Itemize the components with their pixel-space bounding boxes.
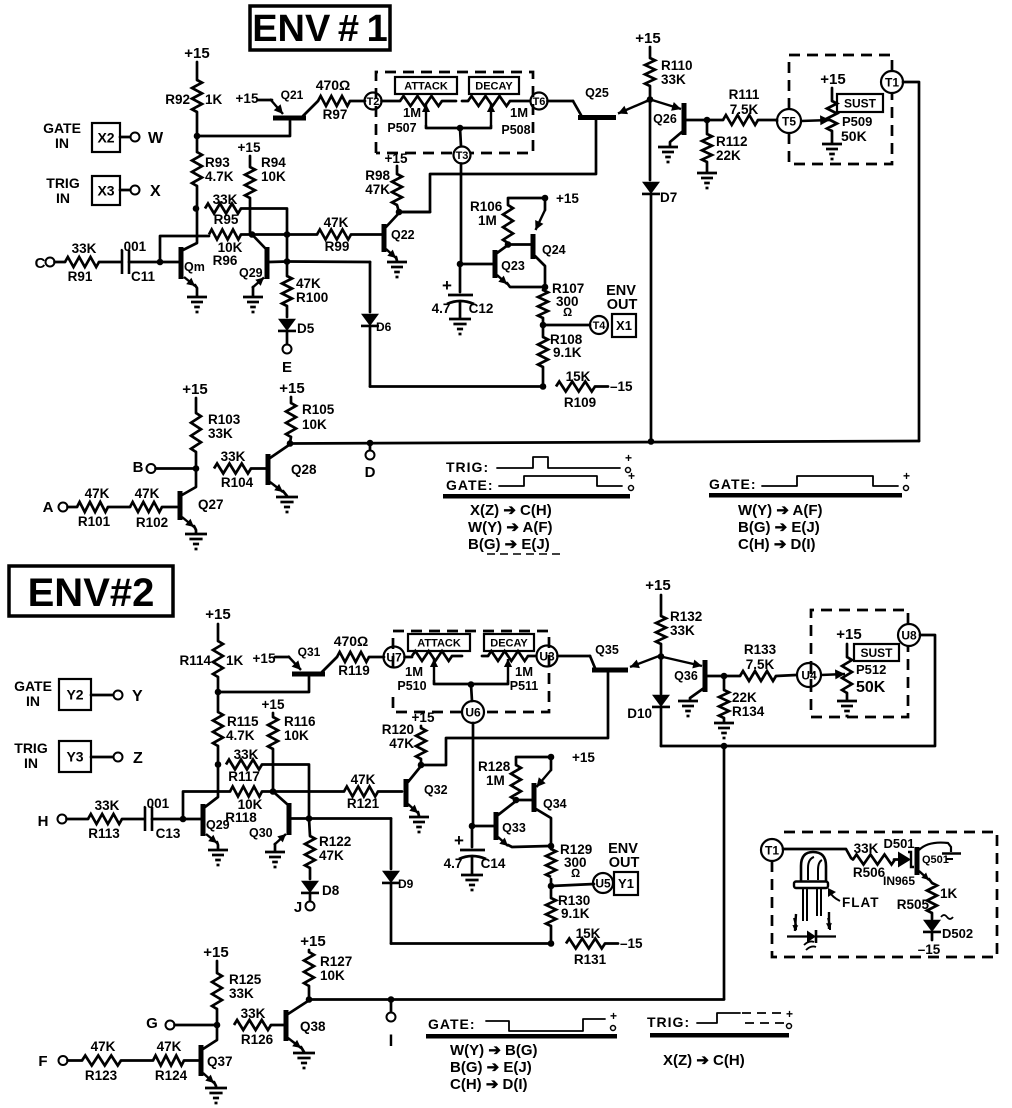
svg-text:10K: 10K <box>302 417 327 432</box>
svg-text:.001: .001 <box>120 239 147 254</box>
svg-text:W(Y) ➔ B(G): W(Y) ➔ B(G) <box>450 1042 538 1059</box>
capacitor C11 <box>120 239 156 284</box>
resistor R104 <box>214 449 266 490</box>
svg-text:1M: 1M <box>515 664 533 679</box>
svg-text:TRIG: TRIG <box>14 740 48 756</box>
junction <box>542 284 549 291</box>
wire <box>550 879 553 886</box>
svg-text:33K: 33K <box>234 747 259 762</box>
svg-text:U3: U3 <box>539 649 555 663</box>
svg-text:+15: +15 <box>236 91 259 106</box>
label DECAY <box>469 77 519 94</box>
resistor R124 <box>121 1039 198 1083</box>
node U5 <box>593 873 613 893</box>
power +15 <box>836 626 861 643</box>
svg-text:T2: T2 <box>367 96 380 108</box>
svg-text:+: + <box>454 831 464 850</box>
svg-text:R115: R115 <box>227 714 259 729</box>
separator bar <box>443 494 630 499</box>
junction <box>468 681 475 688</box>
svg-text:Y1: Y1 <box>618 876 634 891</box>
wire <box>471 685 472 702</box>
text C(H)->D(I) <box>738 536 816 553</box>
svg-text:Q35: Q35 <box>595 643 619 657</box>
resistor R91 <box>55 241 122 284</box>
connector Y3 (TRIG IN) <box>14 740 91 772</box>
svg-text:33K: 33K <box>95 798 120 813</box>
svg-text:4.7K: 4.7K <box>205 169 234 184</box>
svg-text:1M: 1M <box>405 664 423 679</box>
wire <box>262 765 309 819</box>
svg-text:TRIG: TRIG <box>46 175 80 191</box>
svg-text:R128: R128 <box>478 759 511 774</box>
svg-text:1K: 1K <box>226 653 244 668</box>
svg-text:47K: 47K <box>85 486 110 501</box>
svg-text:Q23: Q23 <box>501 259 525 273</box>
wire <box>382 100 401 103</box>
resistor R111 <box>707 87 777 125</box>
wire <box>548 100 574 103</box>
node T1 <box>881 71 903 93</box>
svg-text:W: W <box>148 130 164 147</box>
transistor Q25 <box>573 86 647 118</box>
svg-text:C(H) ➔ D(I): C(H) ➔ D(I) <box>450 1076 528 1093</box>
wire <box>783 849 853 860</box>
wire <box>350 100 365 103</box>
wire Q35 base <box>422 673 608 766</box>
node E <box>282 345 292 377</box>
svg-text:J: J <box>294 899 302 916</box>
label GATE waveform <box>709 476 757 492</box>
wire <box>723 746 726 999</box>
node A <box>43 499 68 516</box>
svg-text:GATE:: GATE: <box>428 1016 476 1032</box>
resistor R121 <box>273 772 402 811</box>
ground <box>187 297 207 312</box>
svg-text:50K: 50K <box>841 128 867 144</box>
diode D8 <box>301 868 340 901</box>
power +15 <box>253 651 276 666</box>
svg-text:DECAY: DECAY <box>490 637 528 649</box>
junction <box>505 195 549 248</box>
resistor R109 <box>556 369 633 410</box>
node B <box>133 459 156 476</box>
svg-text:R93: R93 <box>205 155 230 170</box>
resistor R96 <box>209 230 243 269</box>
svg-text:T4: T4 <box>593 320 607 332</box>
resistor R114 <box>179 641 243 677</box>
svg-text:T6: T6 <box>533 96 546 108</box>
diode D502 <box>923 913 973 941</box>
text B(G)->E(J) <box>468 536 550 553</box>
gate waveform 2 <box>486 1009 617 1031</box>
svg-text:+15: +15 <box>238 140 261 155</box>
wire <box>660 644 663 656</box>
transistor Q24 <box>508 198 566 285</box>
ground <box>387 262 407 277</box>
svg-text:47K: 47K <box>351 772 376 787</box>
wire <box>217 624 220 641</box>
title box ENV #1 <box>250 6 390 50</box>
svg-text:.001: .001 <box>143 796 170 811</box>
capacitor C13 <box>143 796 181 841</box>
svg-text:1M: 1M <box>478 213 497 228</box>
svg-text:+15: +15 <box>279 380 304 397</box>
junction <box>284 231 291 238</box>
svg-text:R506: R506 <box>853 865 886 880</box>
connector X1 (ENV OUT) <box>606 283 637 337</box>
svg-text:D5: D5 <box>297 321 315 336</box>
svg-text:Y2: Y2 <box>66 687 83 703</box>
transistor Q38 <box>286 1001 326 1052</box>
resistor R115 <box>213 692 259 746</box>
svg-text:TRIG:: TRIG: <box>647 1014 690 1030</box>
wire to R118 <box>183 792 230 820</box>
wire <box>558 655 591 658</box>
dashed box attack/decay <box>376 72 533 153</box>
svg-text:SUST: SUST <box>860 646 893 660</box>
junction <box>249 231 256 238</box>
transistor Q33 <box>496 801 549 847</box>
svg-text:R120: R120 <box>382 722 414 737</box>
resistor R103 <box>191 398 241 468</box>
resistor R95 <box>205 192 241 227</box>
wire <box>217 677 220 692</box>
power +15 <box>262 697 285 712</box>
wire <box>369 656 384 659</box>
svg-text:R132: R132 <box>670 609 702 624</box>
junction <box>548 940 555 947</box>
resistor R107 <box>538 281 584 319</box>
ground <box>678 701 698 716</box>
svg-text:7.5K: 7.5K <box>730 102 759 117</box>
svg-text:Q24: Q24 <box>542 243 566 257</box>
dashed box LED driver <box>772 832 997 957</box>
junction <box>194 133 201 140</box>
node D <box>365 443 376 481</box>
svg-text:U5: U5 <box>595 876 611 890</box>
label ATTACK <box>395 77 457 94</box>
svg-text:R118: R118 <box>225 810 257 825</box>
svg-text:R106: R106 <box>470 199 503 214</box>
svg-text:OUT: OUT <box>609 855 640 871</box>
diode D6 <box>361 262 392 387</box>
ground <box>714 723 734 738</box>
ground <box>449 319 471 334</box>
node C (input) <box>35 255 55 272</box>
resistor R101 <box>68 486 111 529</box>
label DECAY <box>484 634 534 651</box>
connector X3 (TRIG IN) <box>46 175 120 206</box>
node U3 <box>537 646 558 667</box>
svg-text:–15: –15 <box>918 942 941 957</box>
svg-text:X(Z) ➔ C(H): X(Z) ➔ C(H) <box>663 1052 745 1069</box>
svg-text:R125: R125 <box>229 972 262 987</box>
svg-text:F: F <box>38 1053 47 1070</box>
svg-text:D9: D9 <box>398 877 414 891</box>
svg-text:+15: +15 <box>300 933 325 950</box>
svg-text:GATE:: GATE: <box>709 476 757 492</box>
node T6 <box>531 93 548 110</box>
label GATE waveform 2 <box>428 1016 476 1032</box>
svg-text:Y3: Y3 <box>66 749 83 765</box>
svg-text:+15: +15 <box>645 577 670 594</box>
wire <box>420 759 423 765</box>
resistor R105 <box>286 397 335 443</box>
svg-text:Q31: Q31 <box>298 645 321 659</box>
resistor R102 <box>108 486 177 530</box>
resistor R112 <box>702 120 748 172</box>
text W(Y)->A(F) <box>738 502 823 519</box>
svg-text:+15: +15 <box>385 151 408 166</box>
svg-text:+15: +15 <box>412 710 435 725</box>
node T1 (LED) <box>761 839 783 861</box>
diode D9 <box>382 819 414 944</box>
svg-text:C: C <box>35 255 46 272</box>
transistor Q37 <box>201 1025 233 1087</box>
title box ENV #2 <box>9 566 173 616</box>
node U7 <box>384 647 405 668</box>
power +15 <box>635 30 660 47</box>
svg-text:R91: R91 <box>68 269 93 284</box>
junction <box>648 438 655 445</box>
ground <box>276 497 298 512</box>
svg-text:IN: IN <box>55 135 69 151</box>
svg-text:33K: 33K <box>229 986 254 1001</box>
wire <box>370 385 543 388</box>
junction <box>367 440 374 447</box>
junction <box>396 209 403 216</box>
svg-text:D501: D501 <box>883 836 914 851</box>
svg-text:R104: R104 <box>221 475 254 490</box>
resistor R505 <box>897 883 958 913</box>
pot P512 50K <box>821 644 899 700</box>
svg-text:–15: –15 <box>610 379 633 394</box>
svg-text:IN965: IN965 <box>883 874 915 888</box>
junction <box>513 754 555 804</box>
wire <box>196 186 199 208</box>
svg-text:47K: 47K <box>365 182 390 197</box>
resistor R93 <box>192 136 234 186</box>
svg-text:4.7: 4.7 <box>432 301 451 316</box>
svg-text:+15: +15 <box>253 651 276 666</box>
svg-text:Q25: Q25 <box>585 86 609 100</box>
node U8 <box>898 624 920 646</box>
svg-text:47K: 47K <box>389 736 414 751</box>
svg-text:R114: R114 <box>179 653 211 668</box>
wire <box>399 211 430 214</box>
wire T3 down <box>460 164 463 265</box>
diode D501 zener <box>883 836 915 888</box>
dashes <box>487 553 560 555</box>
node X <box>131 183 162 200</box>
transistor Q35 <box>590 643 659 670</box>
svg-text:470Ω: 470Ω <box>334 633 369 649</box>
resistor R131 <box>566 926 643 967</box>
wire <box>241 233 252 236</box>
dashed box attack/decay 2 <box>393 631 549 712</box>
svg-text:DECAY: DECAY <box>475 80 513 92</box>
svg-text:7.5K: 7.5K <box>746 657 775 672</box>
junction <box>284 258 291 265</box>
capacitor C14 <box>444 826 506 874</box>
wire <box>120 136 130 139</box>
power +15 <box>300 933 325 950</box>
svg-text:B(G) ➔ E(J): B(G) ➔ E(J) <box>738 519 820 536</box>
wire <box>152 818 183 821</box>
wire <box>91 756 113 759</box>
svg-text:U4: U4 <box>801 668 817 682</box>
connector Y2 (GATE IN) <box>14 678 91 710</box>
resistor R97 <box>316 77 351 122</box>
svg-text:Qm: Qm <box>184 260 205 274</box>
text C(H)->D(I) <box>450 1076 528 1093</box>
svg-text:+15: +15 <box>572 750 595 765</box>
resistor R100 <box>282 262 328 307</box>
svg-text:R116: R116 <box>284 714 316 729</box>
svg-text:Q29: Q29 <box>239 266 263 280</box>
svg-text:Q38: Q38 <box>300 1019 326 1034</box>
svg-text:10K: 10K <box>261 169 286 184</box>
pot P511 1M (decay) <box>471 651 538 693</box>
svg-text:R126: R126 <box>241 1032 274 1047</box>
resistor R120 <box>382 722 426 759</box>
svg-text:33K: 33K <box>241 1006 266 1021</box>
junction <box>287 440 294 447</box>
svg-text:9.1K: 9.1K <box>561 906 590 921</box>
wire <box>460 128 461 146</box>
transistor Q34 <box>516 757 567 846</box>
junction <box>721 743 728 750</box>
wire to R96 <box>160 236 209 262</box>
svg-text:X(Z) ➔ C(H): X(Z) ➔ C(H) <box>470 502 552 519</box>
svg-text:4.7: 4.7 <box>444 856 463 871</box>
svg-text:GATE:: GATE: <box>446 477 494 493</box>
node Y <box>114 688 144 705</box>
svg-text:47K: 47K <box>91 1039 116 1054</box>
svg-text:Q28: Q28 <box>291 462 317 477</box>
svg-text:R102: R102 <box>136 515 168 530</box>
svg-text:+15: +15 <box>203 944 228 961</box>
svg-text:Q33: Q33 <box>502 821 526 835</box>
svg-text:Ω: Ω <box>571 866 580 880</box>
svg-text:+: + <box>625 451 632 465</box>
text W(Y)->B(G) <box>450 1042 538 1059</box>
wire <box>647 100 650 102</box>
svg-text:R121: R121 <box>347 796 380 811</box>
junction <box>215 689 222 696</box>
svg-text:1K: 1K <box>940 886 958 901</box>
svg-text:Q29: Q29 <box>206 818 230 832</box>
separator bar <box>650 1033 789 1038</box>
node H (input) <box>38 813 67 830</box>
transistor Q23 <box>495 245 543 287</box>
wire <box>472 825 494 828</box>
node U4 <box>797 663 821 687</box>
svg-text:T1: T1 <box>885 75 899 89</box>
svg-text:Ω: Ω <box>563 305 572 319</box>
svg-text:50K: 50K <box>856 679 886 696</box>
svg-text:X: X <box>150 183 161 200</box>
text W(Y)->A(F) <box>468 519 553 536</box>
ground <box>205 1088 227 1103</box>
wire <box>309 817 391 820</box>
label FLAT <box>828 888 880 910</box>
capacitor C12 <box>432 264 494 318</box>
resistor R133 <box>724 642 796 681</box>
resistor R125 <box>212 961 262 1025</box>
power +15 <box>182 381 207 398</box>
svg-text:+15: +15 <box>184 45 209 62</box>
svg-text:T3: T3 <box>456 150 469 162</box>
junction <box>469 823 476 830</box>
svg-text:+15: +15 <box>820 71 845 88</box>
resistor R117 <box>226 747 262 784</box>
resistor R134 <box>719 676 765 722</box>
transistor Q27 <box>180 469 224 534</box>
ground <box>822 144 842 159</box>
svg-text:I: I <box>389 1031 394 1050</box>
wire <box>91 694 113 697</box>
power +15 <box>556 191 579 206</box>
svg-text:ATTACK: ATTACK <box>404 80 448 92</box>
text X(Z)->C(H) <box>663 1052 745 1069</box>
node Z <box>114 750 144 767</box>
svg-text:Z: Z <box>133 750 143 767</box>
wire <box>543 324 590 327</box>
resistor R127 <box>304 950 352 999</box>
svg-text:470Ω: 470Ω <box>316 77 351 93</box>
junction <box>388 996 395 1003</box>
wire <box>217 746 220 764</box>
junction <box>548 843 555 850</box>
svg-text:+15: +15 <box>182 381 207 398</box>
svg-text:OUT: OUT <box>607 297 638 313</box>
svg-text:R131: R131 <box>574 952 607 967</box>
ground <box>243 297 263 312</box>
svg-text:+: + <box>442 276 452 295</box>
resistor R99 <box>252 215 382 254</box>
gate waveform <box>762 469 910 491</box>
diode D5 <box>278 306 315 344</box>
svg-text:15K: 15K <box>566 369 591 384</box>
power +15 <box>238 140 261 155</box>
ground <box>208 850 228 865</box>
svg-text:33K: 33K <box>854 841 879 856</box>
svg-text:1M: 1M <box>510 105 528 120</box>
wire <box>542 318 545 325</box>
transistor Q26 <box>652 100 707 146</box>
ground <box>697 173 717 188</box>
wire <box>262 790 273 793</box>
junction <box>270 788 277 795</box>
svg-text:47K: 47K <box>319 848 344 863</box>
wire <box>551 884 594 886</box>
junction <box>647 96 654 103</box>
LED lamp drawing <box>787 852 836 950</box>
junction <box>457 125 464 132</box>
transistor Q21 <box>258 88 318 118</box>
diode D10 <box>627 657 670 722</box>
wire <box>156 467 197 470</box>
svg-text:33K: 33K <box>670 623 695 638</box>
power +15 <box>412 710 435 725</box>
svg-text:47K: 47K <box>135 486 160 501</box>
svg-text:Q34: Q34 <box>543 797 567 811</box>
separator bar <box>426 1034 617 1039</box>
svg-text:W(Y) ➔ A(F): W(Y) ➔ A(F) <box>738 502 823 519</box>
svg-text:R124: R124 <box>155 1068 188 1083</box>
